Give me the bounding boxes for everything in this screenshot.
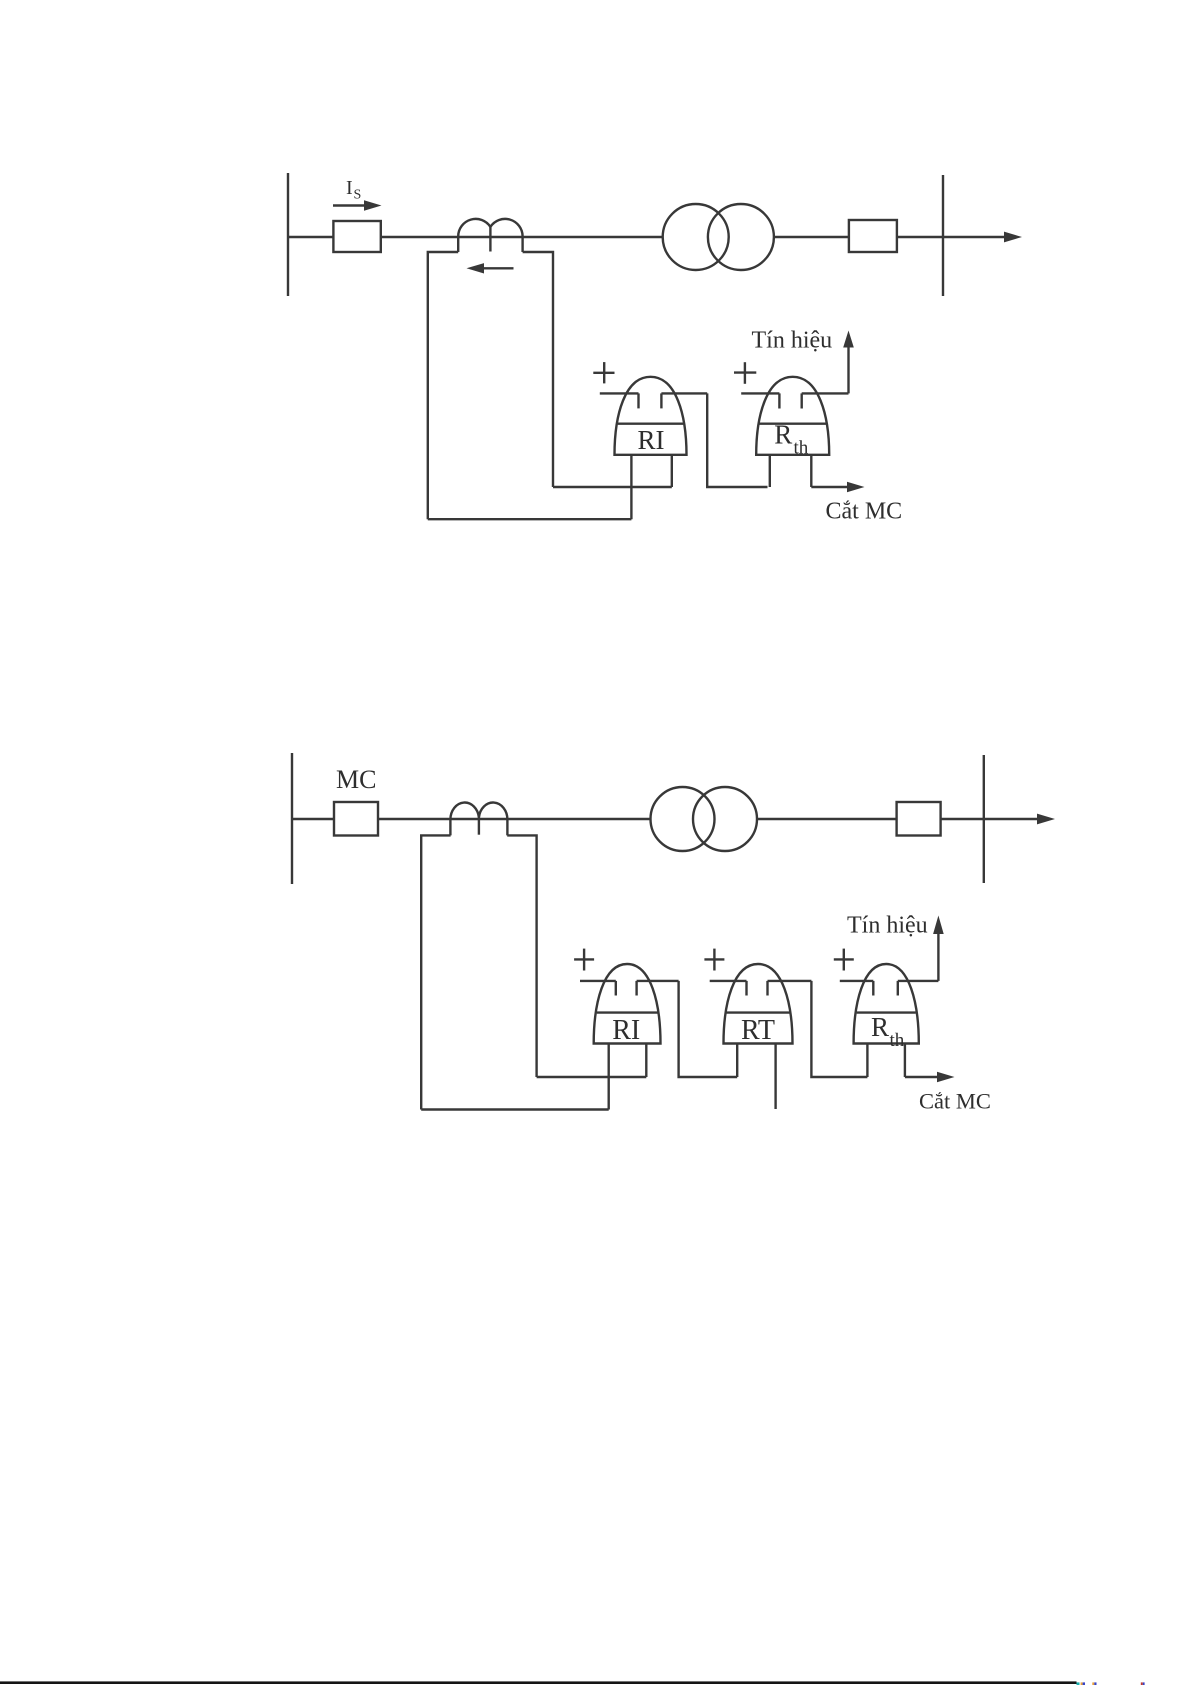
svg-text:Tín hiệu: Tín hiệu <box>847 913 928 939</box>
relay RT contact (D2) <box>710 980 747 982</box>
current transformer BI (D1) <box>458 219 522 252</box>
wire main line segment 4 with arrow (D1) <box>897 236 1007 238</box>
wire signal output up arrow (D1) <box>847 344 849 393</box>
wire RI left leg bottom return (D1) <box>428 518 632 520</box>
wire main line segment 2 (D2) <box>378 818 651 820</box>
label RI (D1) <box>638 425 665 455</box>
relay Rth contact (D2) <box>840 980 874 982</box>
relay Rth coil legs (D2) <box>866 1044 868 1078</box>
relay RT dome (D2) <box>724 964 793 1044</box>
svg-text:R: R <box>871 1012 889 1042</box>
relay Rth dome (D2) <box>854 964 919 1044</box>
label RI (D2) <box>612 1015 640 1046</box>
svg-text:Cắt MC: Cắt MC <box>919 1089 991 1114</box>
wire main line segment 4 with arrow (D2) <box>941 818 1040 820</box>
wire CT right vertical to RI coil (D1) <box>553 486 672 488</box>
relay RI coil legs (D1) <box>630 455 632 519</box>
plus sign Rth (D2) <box>834 958 854 960</box>
plus sign RI (D2) <box>574 958 594 960</box>
busbar left (D1) <box>287 173 289 296</box>
arrow secondary current (points left, D1) <box>482 267 514 269</box>
footer clipped text remnants <box>1077 1682 1145 1685</box>
svg-text:MC: MC <box>336 765 376 794</box>
busbar left (D2) <box>291 753 293 884</box>
circuit breaker rectangle (D1, source side) <box>333 221 380 252</box>
wire signal output up arrow (D2) <box>937 932 939 981</box>
wire CT left jog (D1) <box>428 252 458 519</box>
wire main line segment 3 (D1) <box>774 236 849 238</box>
label Is <box>346 177 361 203</box>
transformer circle 1 (D1) <box>663 204 729 270</box>
plus sign RT (D2) <box>704 958 724 960</box>
relay Rth divider line (D1) <box>759 423 826 425</box>
label Tin hieu (D2) <box>847 913 928 939</box>
relay Rth coil legs (D1) <box>769 455 771 487</box>
wire CT left jog (D2) <box>421 835 450 1109</box>
wire CT right vertical to RI coil (D2) <box>537 1076 647 1078</box>
svg-text:I: I <box>346 177 353 199</box>
svg-text:RI: RI <box>638 425 665 455</box>
label Rth (D1) <box>774 419 808 458</box>
wire RI left leg bottom return (D2) <box>421 1108 609 1110</box>
label Cat MC (D2) <box>919 1089 991 1114</box>
plus sign Rth (D1) <box>734 371 756 373</box>
plus sign RI (D1) <box>593 372 614 374</box>
relay RT coil legs (D2) <box>736 1044 738 1078</box>
current transformer BI (D2) <box>450 803 507 836</box>
svg-text:th: th <box>890 1030 905 1051</box>
busbar right (D1) <box>942 175 944 296</box>
relay RI contact (D1) <box>600 392 639 394</box>
footer rule <box>0 1681 1077 1684</box>
relay RI coil legs (D2) <box>608 1044 610 1110</box>
relay Rth divider line (D2) <box>857 1011 916 1013</box>
svg-text:RT: RT <box>741 1015 775 1046</box>
wire main line segment 2 (D1) <box>381 236 663 238</box>
wire main line segment 1 (D2) <box>292 818 334 820</box>
label RT (D2) <box>741 1015 775 1046</box>
svg-text:Cắt MC: Cắt MC <box>826 499 903 525</box>
wire main line segment 1 (D1) <box>288 236 333 238</box>
relay RI dome (D1) <box>615 377 687 455</box>
transformer circle 2 (D2) <box>693 787 757 851</box>
relay RI contact (D2) <box>580 980 616 982</box>
relay RI dome (D2) <box>594 964 661 1044</box>
label MC breaker <box>336 765 376 794</box>
relay RT divider line (D2) <box>727 1011 790 1013</box>
svg-text:th: th <box>794 438 809 459</box>
label Tin hieu (D1) <box>752 328 833 354</box>
transformer circle 2 (D1) <box>708 204 774 270</box>
wire trip output with arrow (D1) <box>811 486 849 488</box>
relay Rth contact (D1) <box>741 392 779 394</box>
circuit breaker rectangle (D2, load side) <box>897 802 941 836</box>
busbar right (D2) <box>983 755 985 883</box>
relay RI divider line (D2) <box>597 1011 658 1013</box>
label Cat MC (D1) <box>826 499 903 525</box>
wire CT right jog (D2) <box>507 835 536 1077</box>
svg-text:R: R <box>774 419 792 449</box>
wire trip output with arrow (D2) <box>905 1076 939 1078</box>
relay Rth dome (D1) <box>756 377 829 455</box>
svg-text:RI: RI <box>612 1015 640 1046</box>
wire RT contact output to Rth coil (D2) <box>811 981 867 1077</box>
wire main line segment 3 (D2) <box>757 818 897 820</box>
circuit breaker MC rectangle (D2, source side) <box>334 802 378 836</box>
svg-text:S: S <box>354 188 362 203</box>
relay RI divider line (D1) <box>618 423 684 425</box>
transformer circle 1 (D2) <box>651 787 715 851</box>
arrow Is direction <box>333 204 366 206</box>
circuit breaker rectangle (D1, load side) <box>849 220 897 252</box>
label Rth (D2) <box>871 1012 905 1051</box>
wire CT right jog (D1) <box>523 252 553 487</box>
svg-text:Tín hiệu: Tín hiệu <box>752 328 833 354</box>
wire RI contact output to RT coil (D2) <box>679 981 738 1077</box>
wire RI contact output to Rth coil (D1) <box>707 393 767 487</box>
